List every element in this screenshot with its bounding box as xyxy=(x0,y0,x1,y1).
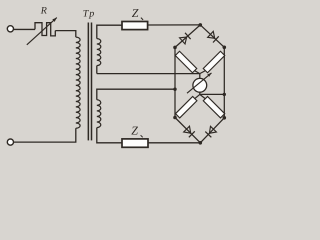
wire bridge left rail xyxy=(174,47,176,117)
wire secondary mid-lower to left rail xyxy=(97,89,175,100)
wire secondary top to Z1 xyxy=(97,25,122,38)
diode VD4 (bottom-right arm) xyxy=(205,126,216,137)
wire Z2 to bridge bottom node xyxy=(148,142,200,144)
wire bridge right rail xyxy=(223,47,225,118)
label Z1 subscript xyxy=(141,18,143,20)
terminal top-left input xyxy=(7,26,13,32)
wire resistor to transformer primary xyxy=(55,31,76,37)
wire secondary bottom to Z2 xyxy=(97,128,122,143)
bridge arm bar lower-left xyxy=(175,96,196,117)
bridge arm bar lower-right xyxy=(203,96,224,117)
wire meter top stub xyxy=(199,74,201,79)
node right upper xyxy=(223,46,227,50)
node left lower xyxy=(173,116,177,120)
wire primary bottom lead to bottom terminal xyxy=(13,128,75,142)
terminal bottom-left input xyxy=(7,139,13,145)
transformer secondary winding 1 (upper) xyxy=(97,39,101,66)
svg-text:p: p xyxy=(88,8,94,19)
node right lower xyxy=(223,116,227,120)
wire from top terminal to resistor xyxy=(13,28,35,30)
label R xyxy=(40,6,47,17)
transformer secondary winding 2 (lower) xyxy=(97,100,101,128)
label Z2 subscript xyxy=(141,135,143,137)
label Z2 xyxy=(131,123,138,137)
wire meter junction to right rail xyxy=(200,93,225,95)
wire secondary upper bottom lead xyxy=(96,66,98,74)
wire bar connectors bottom junction xyxy=(195,94,205,98)
node left rail tap xyxy=(173,88,176,91)
transformer core xyxy=(88,23,91,141)
wire bridge edge top-right xyxy=(200,25,224,47)
impedance Z1 box xyxy=(122,22,148,30)
meter needle arrow xyxy=(187,73,212,93)
wire bridge edge bottom-left xyxy=(175,118,200,143)
node right rail tap xyxy=(223,93,226,96)
diode VD1 (top-left arm) xyxy=(180,33,191,44)
node left upper xyxy=(173,46,177,50)
svg-text:Z: Z xyxy=(131,123,138,137)
impedance Z2 box xyxy=(122,139,148,147)
node top corner xyxy=(199,23,203,27)
label Z1 xyxy=(132,6,139,20)
wire meter bottom stub xyxy=(199,92,201,94)
bridge arm bar upper-right xyxy=(203,51,224,72)
wire bridge edge top-left xyxy=(175,25,200,48)
resistor R body (meander) xyxy=(35,23,55,36)
node bottom corner xyxy=(199,141,203,145)
wire bar connectors top junction xyxy=(195,71,206,74)
diode VD2 (top-right arm) xyxy=(208,31,219,42)
label Tp xyxy=(83,8,94,19)
resistor R adjustment arrow xyxy=(27,18,57,45)
svg-text:Z: Z xyxy=(132,6,139,20)
transformer Tp primary winding xyxy=(76,37,80,128)
wire secondary mid-upper to bridge center junction xyxy=(97,73,200,75)
diode VD3 (bottom-left arm) xyxy=(184,126,195,137)
wire bridge edge bottom-right xyxy=(200,118,224,143)
bridge arm bar upper-left xyxy=(175,51,196,72)
wire Z1 to bridge top node xyxy=(148,24,201,26)
galvanometer meter circle xyxy=(193,78,207,92)
svg-text:R: R xyxy=(40,6,47,17)
